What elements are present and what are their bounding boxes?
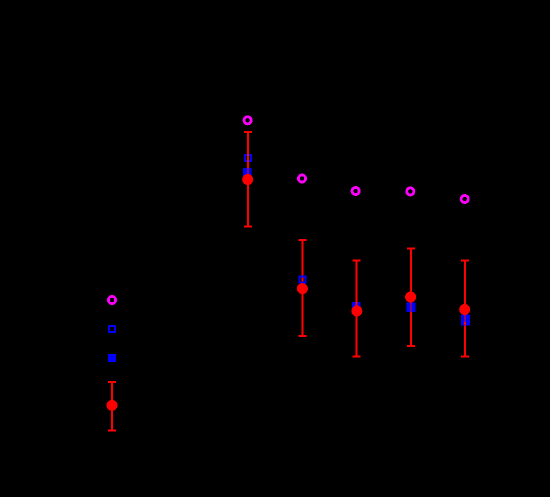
group 3 filled circle [351, 306, 362, 317]
group 5 error bar [461, 261, 469, 357]
group 2 error bar [298, 240, 306, 336]
group 1 open circle [244, 117, 251, 124]
legend error bar [108, 382, 116, 430]
group 4 filled square [406, 302, 415, 312]
group 5 filled square [461, 314, 470, 325]
group 5 open circle [461, 195, 468, 202]
legend open square marker [109, 326, 115, 332]
legend filled square marker [108, 354, 116, 362]
group 5 filled circle [459, 304, 470, 315]
group 3 filled square [352, 302, 360, 310]
group 4 wire blend over filled square [410, 302, 412, 312]
group 5 wire blend over filled square [464, 314, 466, 321]
group 4 filled circle [405, 292, 416, 303]
group 1 open square [245, 155, 251, 161]
group 1 filled square [243, 168, 251, 176]
group 3 error bar [353, 261, 361, 357]
group 1 wire blend over filled square [247, 168, 249, 176]
group 5 wire end blob [464, 322, 466, 325]
group 2 open square [299, 277, 305, 283]
group 3 wire over filled square [356, 302, 358, 307]
group 4 open circle [407, 188, 414, 195]
group 4 error bar [407, 248, 415, 345]
group 3 open circle [352, 187, 359, 194]
group 1 wire over open square [247, 154, 249, 164]
legend open circle marker [108, 296, 115, 303]
group 2 filled circle [297, 283, 308, 294]
legend filled circle marker [107, 400, 118, 411]
group 1 error bar [244, 132, 252, 226]
group 1 filled circle [242, 174, 253, 185]
group 2 open circle [298, 175, 305, 182]
